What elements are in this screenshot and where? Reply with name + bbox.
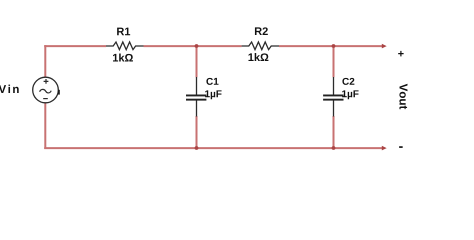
capacitor C2: top plate <box>323 95 343 97</box>
capacitor C1: bottom plate <box>186 99 206 101</box>
label: output plus terminal <box>398 51 403 56</box>
value: 1kΩ (R2) <box>248 53 268 61</box>
label: R2 <box>255 27 268 35</box>
wire: vertical from source bottom to bottom rail corner <box>44 103 46 149</box>
voltage source V1: circle body <box>33 77 59 103</box>
wire: top rail, source corner to R1 left lead <box>44 45 106 47</box>
label: R1 <box>117 28 130 36</box>
label: C2 <box>342 78 354 85</box>
label: Vin <box>0 85 19 93</box>
wire: top rail, R1 right lead to R2 left lead <box>144 45 242 47</box>
value: 1kΩ (R1) <box>113 54 133 62</box>
junction: bottom rail at C1 <box>195 146 199 150</box>
wire: C2 upper vertical <box>333 45 335 77</box>
output terminal arrow, bottom rail <box>382 146 387 151</box>
value: 1µF (C2) <box>342 90 358 99</box>
voltage source V1: right edge pin tick <box>58 90 60 95</box>
label: output minus terminal <box>399 146 403 148</box>
junction: top rail at C1 <box>195 44 199 48</box>
label: C1 <box>206 78 218 85</box>
resistor R2 (zigzag body with leads) <box>242 42 279 50</box>
wire: vertical from source top to top rail corner <box>44 45 46 78</box>
label: Vout (rotated 90°) <box>399 84 407 110</box>
junction: top rail at C2 <box>332 44 336 48</box>
output terminal arrow, top rail <box>382 44 387 49</box>
capacitor C1: lead stubs <box>196 77 198 117</box>
wire: top rail, R2 right lead to output arrow <box>279 45 382 47</box>
capacitor C2: bottom plate <box>323 99 343 101</box>
wire: C2 lower vertical <box>333 116 335 149</box>
wire: C1 lower vertical <box>196 116 198 149</box>
capacitor C2: lead stubs <box>333 77 335 117</box>
resistor R1 (zigzag body with leads) <box>106 42 144 50</box>
wire: C1 upper vertical <box>196 45 198 77</box>
wire: bottom rail <box>44 147 382 149</box>
voltage source V1: sine wave mark <box>40 89 52 93</box>
voltage source V1: plus polarity mark <box>44 79 49 84</box>
value: 1µF (C1) <box>205 90 221 99</box>
junction: bottom rail at C2 <box>332 146 336 150</box>
voltage source V1: minus polarity mark <box>43 98 48 100</box>
capacitor C1: top plate <box>186 95 206 97</box>
